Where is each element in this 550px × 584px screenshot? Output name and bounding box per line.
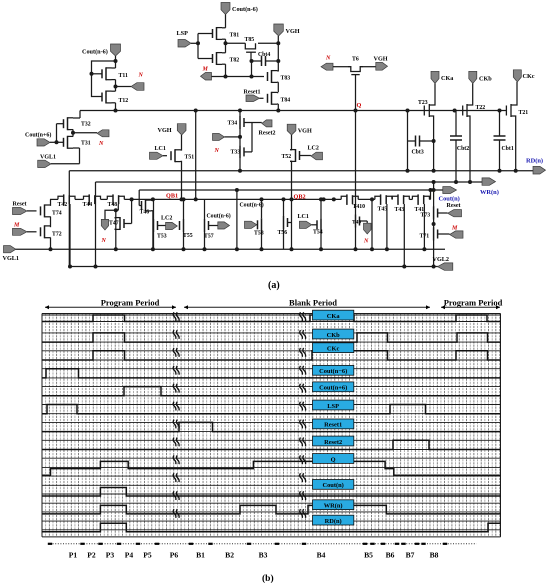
- svg-text:B4: B4: [317, 551, 326, 560]
- pad VGL1 upper: [38, 160, 51, 167]
- signal label Reset2: [313, 436, 354, 446]
- wire T41 gate drop: [422, 204, 426, 251]
- svg-text:T410: T410: [353, 204, 366, 210]
- arrow Blank Period: [184, 305, 430, 309]
- svg-text:T55: T55: [183, 233, 193, 239]
- label Cbt3: [412, 150, 424, 156]
- pad N of T47: [101, 210, 116, 230]
- waveform WR(n): [42, 505, 501, 514]
- wire right col riser: [432, 180, 436, 207]
- transistor T43: [392, 194, 409, 205]
- label T22: [476, 105, 486, 111]
- svg-text:T42: T42: [58, 202, 68, 208]
- pad Cout(n-6) mid1: [209, 222, 230, 229]
- wire Cbt3 branch: [406, 109, 410, 173]
- label Cout(n-6) mid1: [207, 213, 231, 220]
- pad Reset right: [438, 210, 462, 217]
- wire node to T85: [226, 42, 246, 44]
- svg-text:Cout(n): Cout(n): [322, 482, 343, 489]
- svg-text:N: N: [325, 56, 331, 62]
- junction: [354, 109, 358, 113]
- wire gate riser T11 T12: [90, 61, 116, 97]
- label T410: [353, 204, 366, 210]
- label T42: [58, 202, 68, 208]
- wire T48 gate drop: [114, 204, 119, 251]
- svg-text:P6: P6: [170, 551, 179, 560]
- junction: [276, 41, 280, 45]
- pad RD(n): [533, 166, 546, 174]
- label T83: [281, 76, 291, 82]
- svg-text:T43: T43: [395, 207, 405, 213]
- label T48: [108, 202, 118, 208]
- label VGH mid-right: [298, 128, 312, 135]
- wire T85 gate drop: [251, 61, 253, 77]
- signal label Cout(n-6): [313, 365, 354, 375]
- svg-text:T85: T85: [245, 37, 255, 43]
- svg-text:Program Period: Program Period: [101, 298, 160, 308]
- transistor T74: [41, 199, 51, 227]
- svg-text:Blank Period: Blank Period: [289, 298, 337, 308]
- svg-text:QB2: QB2: [294, 194, 306, 201]
- wire VGL1 rail: [15, 248, 445, 250]
- svg-text:T53: T53: [157, 234, 167, 240]
- svg-text:B5: B5: [364, 551, 373, 560]
- pad VGH mid-left: [177, 124, 186, 148]
- wire RD rail: [69, 170, 534, 172]
- label P1: [69, 551, 78, 560]
- svg-text:T83: T83: [281, 76, 291, 82]
- grid left border: [41, 314, 43, 537]
- svg-text:Reset2: Reset2: [324, 439, 342, 446]
- waveform CKc: [42, 351, 501, 360]
- label T32: [81, 122, 91, 128]
- svg-text:T6: T6: [352, 57, 359, 63]
- transistor T72: [41, 225, 51, 249]
- label VGL1: [40, 155, 56, 161]
- transistor T71: [432, 228, 438, 269]
- wire M rail: [212, 76, 265, 78]
- svg-text:CKc: CKc: [327, 346, 340, 353]
- svg-text:Reset1: Reset1: [324, 422, 342, 429]
- waveform Q: [42, 461, 501, 475]
- pad N of T49: [360, 221, 372, 234]
- label LC2 mid-right: [308, 146, 319, 152]
- signal label LSP: [313, 400, 354, 410]
- label Cbt1: [502, 146, 514, 152]
- signal label CKc: [313, 343, 354, 353]
- label T21: [519, 110, 529, 116]
- svg-text:T71: T71: [420, 234, 430, 240]
- wire gate riser T81 T82: [198, 34, 213, 59]
- svg-text:Cbt2: Cbt2: [457, 146, 469, 152]
- svg-text:VGH: VGH: [286, 28, 300, 35]
- signal label RD(n): [313, 515, 354, 525]
- pad Cout(n-6): [111, 44, 121, 61]
- svg-text:P2: P2: [87, 551, 96, 560]
- junction: [276, 59, 280, 63]
- waveform Reset2: [42, 440, 501, 449]
- label Reset left: [13, 202, 27, 208]
- pad WR(n): [482, 178, 496, 185]
- pad N of T6: [321, 63, 348, 70]
- label VGL1 bottom: [3, 255, 20, 262]
- wire T11 source to N pad: [116, 86, 132, 88]
- svg-text:Cbt1: Cbt1: [502, 146, 514, 152]
- pad VGH top: [274, 24, 284, 36]
- wire left riser RD-VGL2: [68, 171, 70, 267]
- svg-text:T46: T46: [140, 210, 150, 216]
- label T56: [278, 230, 288, 236]
- wire T32 T31 node to N pad: [73, 132, 97, 134]
- svg-text:VGL1: VGL1: [40, 155, 56, 161]
- transistor T82: [213, 43, 226, 77]
- svg-text:T72: T72: [52, 232, 62, 238]
- svg-text:CKa: CKa: [441, 75, 453, 82]
- label T44: [83, 202, 93, 208]
- capacitor Cbt1: [494, 109, 506, 173]
- label N red: [101, 238, 107, 244]
- pad M left: [13, 228, 37, 235]
- transistor T22: [463, 104, 473, 182]
- transistor T46: [139, 199, 153, 249]
- junction: [224, 41, 228, 45]
- svg-text:RD(n): RD(n): [526, 158, 543, 165]
- svg-text:LSP: LSP: [327, 403, 339, 410]
- label Cout(n-6) mid2: [240, 202, 264, 209]
- svg-text:T32: T32: [81, 122, 91, 128]
- svg-text:VGH: VGH: [298, 128, 312, 135]
- wire Cout rail: [139, 189, 444, 191]
- label (b): [262, 573, 274, 584]
- svg-text:P3: P3: [106, 551, 115, 560]
- label CKa: [441, 75, 453, 82]
- svg-text:Reset1: Reset1: [244, 90, 261, 96]
- transistor T44: [84, 194, 101, 205]
- transistor T23: [424, 104, 435, 171]
- svg-text:T23: T23: [418, 100, 428, 106]
- transistor T45: [375, 194, 392, 205]
- label LC1 mid: [298, 214, 309, 220]
- svg-text:T73: T73: [421, 213, 431, 219]
- label P6: [170, 551, 179, 560]
- svg-text:LC2: LC2: [161, 216, 172, 222]
- wire bus riser mid: [194, 109, 198, 202]
- wire Q net: [355, 111, 357, 209]
- svg-text:LC1: LC1: [155, 146, 166, 152]
- transistor T47: [115, 217, 125, 230]
- break marks: [173, 312, 305, 518]
- label T34: [228, 121, 238, 127]
- transistor T410: [341, 194, 358, 205]
- svg-text:T74: T74: [52, 211, 62, 217]
- wire T42 gate drop: [68, 204, 72, 269]
- label T58: [254, 231, 264, 237]
- label Cbt4: [258, 52, 270, 58]
- waveform Reset1: [42, 422, 501, 431]
- transistor T6 horizontal: [348, 67, 363, 111]
- label Cout(n) blue: [439, 196, 460, 203]
- label B8: [430, 551, 439, 560]
- grid top border: [42, 313, 501, 315]
- label B4: [317, 551, 326, 560]
- pad Cout(n-6) mid2: [245, 221, 258, 228]
- junction: [180, 197, 184, 201]
- junction: [71, 131, 75, 135]
- label B5: [364, 551, 373, 560]
- label VGH top: [286, 28, 300, 35]
- grid vertical dotted lines: [42, 314, 500, 537]
- waveform CKa: [42, 315, 501, 322]
- junction: [114, 85, 118, 89]
- transistor T55: [180, 197, 186, 251]
- label Program Period left: [101, 298, 160, 308]
- transistor T51: [171, 148, 182, 200]
- transistor T84: [268, 92, 279, 111]
- label LSP: [177, 30, 189, 37]
- junction: [332, 197, 336, 201]
- svg-text:Cout(n-6): Cout(n-6): [82, 49, 108, 56]
- junction: [238, 135, 242, 139]
- transistor T56: [282, 197, 292, 249]
- grid bottom border: [42, 536, 501, 538]
- svg-text:T44: T44: [83, 202, 93, 208]
- transistor T83: [268, 70, 279, 92]
- label T55: [183, 233, 193, 239]
- svg-text:T57: T57: [204, 234, 214, 240]
- pad VGH mid-right: [287, 124, 296, 149]
- svg-text:LSP: LSP: [177, 30, 189, 37]
- label Cbt2: [457, 146, 469, 152]
- svg-text:LC2: LC2: [308, 146, 319, 152]
- svg-text:VGH: VGH: [158, 127, 172, 134]
- svg-text:CKc: CKc: [523, 73, 535, 80]
- pad CKc: [513, 70, 521, 104]
- wire VGL1 to T31: [51, 148, 80, 164]
- capacitor Cbt3: [408, 136, 434, 147]
- waveform CKb: [42, 333, 501, 342]
- label T84: [281, 98, 291, 104]
- waveform RD(n): [42, 523, 501, 532]
- junction: [276, 109, 280, 113]
- label T71: [420, 234, 430, 240]
- svg-text:CKb: CKb: [479, 76, 492, 83]
- transistor T41: [412, 194, 429, 205]
- pad VGH of T6: [363, 62, 388, 70]
- svg-text:Cout(n+6): Cout(n+6): [25, 132, 51, 139]
- svg-text:P5: P5: [143, 551, 152, 560]
- svg-text:N: N: [98, 141, 104, 147]
- label N red: [98, 141, 104, 147]
- label P2: [87, 551, 96, 560]
- svg-text:N: N: [101, 238, 107, 244]
- label T82: [230, 58, 240, 64]
- pad VGL2: [438, 263, 453, 270]
- junction: [250, 59, 254, 63]
- label T49: [352, 220, 361, 226]
- wire T52 drop to VGL1: [290, 199, 294, 251]
- label T11: [119, 73, 128, 79]
- pad Cout(n+6): [37, 139, 57, 146]
- svg-text:T54: T54: [313, 230, 323, 236]
- svg-text:Cout(n−6): Cout(n−6): [319, 368, 347, 375]
- svg-text:T45: T45: [378, 207, 388, 213]
- label T45: [378, 207, 388, 213]
- svg-text:B2: B2: [225, 551, 234, 560]
- label N red: [138, 73, 144, 79]
- signal label CKb: [313, 329, 354, 339]
- wire QB chain rail: [50, 198, 431, 200]
- label M red: [13, 223, 20, 229]
- signal label CKa: [313, 310, 354, 320]
- capacitor Cbt2: [450, 109, 462, 185]
- svg-text:VGL2: VGL2: [433, 256, 450, 263]
- pad N of T11: [131, 83, 144, 91]
- svg-text:T81: T81: [230, 33, 240, 39]
- svg-text:WR(n): WR(n): [480, 189, 499, 196]
- svg-text:M: M: [202, 67, 209, 73]
- label T23: [418, 100, 428, 106]
- wire T85 to VGH line: [258, 42, 278, 44]
- svg-text:Cbt3: Cbt3: [412, 150, 424, 156]
- pad Cout(n): [443, 187, 457, 194]
- svg-text:T11: T11: [119, 73, 128, 79]
- arrow Program Period right: [441, 305, 500, 309]
- wire WR rail: [96, 181, 484, 183]
- svg-text:B1: B1: [196, 551, 205, 560]
- label RD(n) blue: [526, 158, 543, 165]
- label T54: [313, 230, 323, 236]
- transistor T48: [107, 194, 124, 205]
- wire T43 gate drop: [402, 204, 406, 269]
- waveform Cout(n+6): [42, 387, 501, 396]
- transistor T57: [203, 199, 209, 251]
- transistor T58: [258, 197, 264, 251]
- svg-text:N: N: [214, 148, 220, 154]
- pad LC2 mid: [158, 222, 178, 229]
- signal label WR(n): [313, 500, 354, 510]
- label QB1 red: [166, 193, 178, 200]
- pad Cout(n-6) top: [221, 3, 230, 28]
- junction: [151, 247, 155, 251]
- wire top bus: [80, 110, 506, 112]
- label T57: [204, 234, 214, 240]
- label T46: [140, 210, 150, 216]
- label Program Period right: [444, 298, 503, 308]
- svg-text:Cout(n+6): Cout(n+6): [319, 385, 347, 392]
- label B2: [225, 551, 234, 560]
- pad Reset2: [252, 120, 272, 127]
- transistor T85 horizontal: [245, 43, 256, 61]
- label T85: [245, 37, 255, 43]
- svg-text:T52: T52: [282, 154, 292, 160]
- transistor T33: [238, 137, 244, 173]
- label T6: [352, 57, 359, 63]
- label Reset1: [244, 90, 261, 96]
- wire mid drop: [235, 188, 239, 249]
- transistor T31: [64, 133, 80, 149]
- transistor T42: [58, 194, 75, 205]
- waveform LSP: [42, 405, 501, 414]
- wire VGL2 rail: [69, 266, 438, 268]
- transistor T53: [154, 199, 158, 249]
- transistor T54: [317, 197, 323, 251]
- label P3: [106, 551, 115, 560]
- label WR(n) blue: [480, 189, 499, 196]
- label T41: [415, 207, 425, 213]
- svg-text:CKb: CKb: [327, 332, 341, 339]
- svg-text:Cbt4: Cbt4: [258, 52, 270, 58]
- label Blank Period: [289, 298, 337, 308]
- pad M right: [438, 231, 463, 238]
- svg-text:T84: T84: [281, 98, 291, 104]
- svg-text:T56: T56: [278, 230, 288, 236]
- wire T47 gate riser: [124, 199, 132, 223]
- wire T45 gate drop: [385, 204, 389, 251]
- label LC2 mid: [161, 216, 172, 222]
- svg-text:Reset: Reset: [447, 203, 461, 209]
- label Q red: [357, 102, 362, 109]
- svg-text:T82: T82: [230, 58, 240, 64]
- wire Cout rail left drop: [138, 190, 140, 206]
- junction: [468, 180, 472, 184]
- label T43: [395, 207, 405, 213]
- label T51: [185, 155, 195, 161]
- svg-text:T48: T48: [108, 202, 118, 208]
- label T33: [231, 150, 241, 156]
- pad LC1 mid-left: [150, 152, 168, 159]
- svg-text:B8: B8: [430, 551, 439, 560]
- pad M top block: [201, 73, 212, 81]
- svg-text:M: M: [13, 223, 20, 229]
- signal label Reset1: [313, 419, 354, 429]
- svg-text:VGH: VGH: [374, 55, 388, 62]
- pad Reset left: [13, 208, 37, 215]
- label T72: [52, 232, 62, 238]
- svg-text:B3: B3: [259, 551, 268, 560]
- pad Reset1: [246, 95, 264, 102]
- junction: [250, 75, 254, 79]
- wire VGH drop: [277, 36, 279, 72]
- svg-text:N: N: [138, 73, 144, 79]
- svg-text:Cout(n-6): Cout(n-6): [207, 213, 231, 220]
- pad N mid: [213, 134, 241, 141]
- junction: [130, 197, 134, 201]
- signal label Cout(n+6): [313, 382, 354, 392]
- svg-text:Q: Q: [357, 102, 362, 109]
- pad LSP: [178, 40, 198, 48]
- svg-text:(a): (a): [268, 280, 280, 291]
- signal label Q: [313, 454, 354, 464]
- label N red: [363, 239, 369, 245]
- svg-text:N: N: [363, 239, 369, 245]
- label T81: [230, 33, 240, 39]
- label M red: [451, 226, 458, 232]
- label T31: [81, 141, 91, 147]
- label Reset2: [259, 131, 276, 137]
- svg-text:T21: T21: [519, 110, 529, 116]
- junction: [55, 140, 59, 144]
- waveform Cout(n-6): [42, 369, 501, 378]
- label T52: [282, 154, 292, 160]
- signal label Cout(n): [313, 480, 354, 490]
- svg-text:Cout(n): Cout(n): [439, 196, 460, 203]
- label LC1 mid-left: [155, 146, 166, 152]
- label P4: [125, 551, 134, 560]
- label N red: [325, 56, 331, 62]
- wire left riser WR-VGL2: [94, 182, 98, 269]
- svg-text:P4: P4: [125, 551, 134, 560]
- svg-text:T47: T47: [109, 221, 119, 227]
